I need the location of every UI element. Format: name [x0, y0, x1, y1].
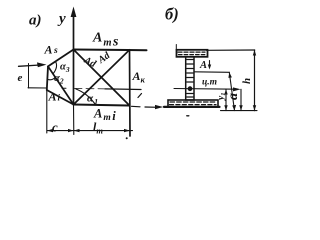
dim ext h top: [207, 49, 255, 51]
svg-text:у: у: [57, 11, 66, 27]
angle arc alpha1: [76, 89, 95, 104]
svg-text:lm: lm: [93, 120, 103, 136]
svg-text:α1: α1: [87, 93, 98, 107]
svg-text:Ai: Ai: [48, 90, 61, 104]
centroid axis with arrow to d-line: [174, 88, 237, 91]
left edge dim extension: [46, 90, 48, 133]
edge top-left diagonal: [48, 50, 74, 67]
alpha2 line vertex to B: [48, 66, 74, 104]
y-axis: [73, 12, 75, 105]
hexagon bottom edge: [74, 105, 130, 106]
dim arrow right: [124, 129, 130, 132]
angle arc alpha3: [53, 61, 57, 74]
y-axis dim extension: [73, 105, 75, 135]
svg-text:а: а: [226, 93, 241, 100]
dim arrow left: [47, 129, 53, 132]
label Ad on D2: [95, 50, 113, 67]
bottom flange: [168, 100, 218, 107]
dim arrow mid: [68, 129, 74, 132]
svg-text:As: As: [44, 43, 59, 57]
force arrow e: [19, 65, 43, 66]
svg-text:Ams: Ams: [92, 31, 119, 50]
svg-text:б): б): [165, 5, 179, 24]
dim line h: [254, 50, 256, 111]
svg-text:A: A: [199, 60, 207, 71]
diagonal D1: [74, 50, 130, 106]
bottom dimension line: [47, 130, 133, 132]
speck: [126, 137, 128, 139]
dim line a: [229, 72, 234, 110]
speck under flange: [187, 115, 189, 117]
flange bottom thick edge: [164, 106, 220, 108]
dim line d: [240, 89, 242, 110]
dim ext bottom: [221, 110, 258, 112]
label Ad on D1: [81, 54, 98, 70]
angle arc alpha2: [48, 77, 56, 80]
svg-text:ц.т: ц.т: [202, 78, 217, 88]
svg-text:α2: α2: [54, 73, 64, 86]
svg-text:Aк: Aк: [132, 69, 146, 85]
top flange: [177, 50, 208, 57]
horizontal centroid axis: [28, 87, 47, 89]
dim ext a-level: [195, 71, 230, 74]
hexagon top edge: [74, 49, 147, 52]
svg-text:Ad: Ad: [95, 50, 113, 67]
svg-text:e: e: [18, 72, 23, 84]
stray x mark: [138, 94, 142, 98]
dim line y1: [225, 89, 227, 111]
label h rotated: [241, 78, 253, 84]
edge bottom-left diagonal: [47, 90, 74, 105]
hexagon right edge: [129, 50, 132, 136]
web: [186, 57, 194, 100]
x-axis arrow to section: [132, 105, 141, 108]
svg-text:Ami: Ami: [93, 107, 116, 124]
svg-text:h: h: [241, 78, 253, 84]
svg-text:c: c: [52, 120, 58, 135]
e dimension line: [28, 64, 30, 89]
hexagon left edge: [47, 66, 48, 90]
tick above flange: [175, 45, 177, 51]
label y1 rotated: [217, 93, 228, 101]
svg-text:а): а): [29, 13, 42, 29]
svg-text:α3: α3: [60, 62, 70, 75]
diagonal D2: [74, 50, 130, 105]
label a rotated: [226, 93, 241, 100]
centroid dot: [188, 86, 193, 91]
